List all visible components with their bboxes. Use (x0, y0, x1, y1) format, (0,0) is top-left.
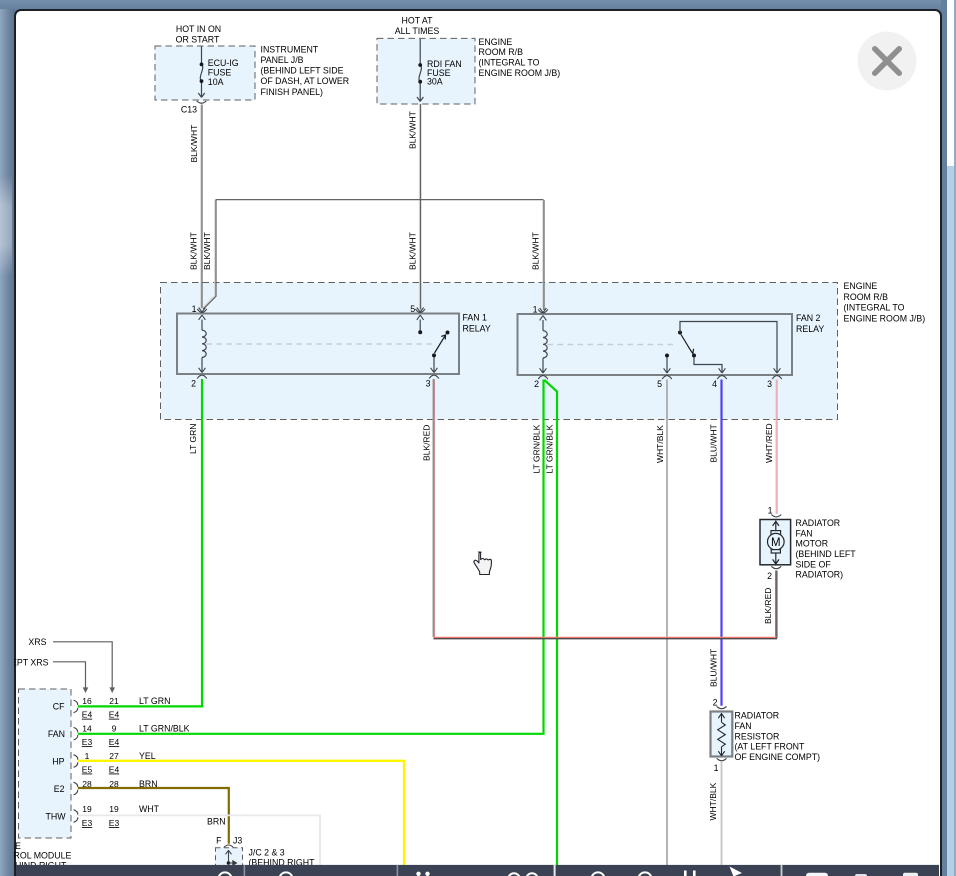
svg-text:3: 3 (767, 379, 772, 389)
toolbar separator 3 (554, 865, 556, 876)
svg-text:(INTEGRAL TO: (INTEGRAL TO (844, 303, 905, 313)
svg-text:HOT AT: HOT AT (402, 16, 434, 26)
svg-text:4: 4 (712, 379, 717, 389)
svg-text:FAN: FAN (796, 528, 813, 538)
relay FAN 1 RELAY box (177, 314, 459, 375)
svg-text:BLK/RED: BLK/RED (421, 425, 431, 461)
page background right strips and scrollbar (941, 0, 947, 876)
toolbar icon rect 1 (806, 873, 828, 876)
svg-text:1: 1 (533, 305, 538, 315)
relay1 switch (419, 320, 421, 331)
svg-text:EPT XRS: EPT XRS (14, 657, 49, 667)
svg-text:F: F (216, 836, 222, 846)
relay1 pin 5 (415, 308, 425, 320)
svg-text:16: 16 (82, 696, 92, 706)
svg-text:J3: J3 (233, 836, 242, 846)
svg-text:WHT: WHT (139, 804, 160, 814)
svg-text:19: 19 (82, 804, 92, 814)
toolbar icon rect 3 (903, 873, 918, 876)
svg-text:E4: E4 (109, 765, 120, 775)
svg-text:FAN: FAN (735, 721, 752, 731)
relay2 switch common from pin 3 (678, 331, 682, 335)
wire WHT/BLK resistor pin1 down (721, 762, 723, 866)
svg-text:2: 2 (534, 379, 539, 389)
svg-text:5: 5 (657, 379, 662, 389)
relay1 coil (202, 320, 206, 372)
svg-text:HOT IN ON: HOT IN ON (176, 24, 221, 34)
label RADIATOR FAN MOTOR (796, 518, 857, 580)
connector E5 E4 (82, 765, 120, 775)
mouse hand cursor (474, 552, 491, 575)
svg-text:BLK/WHT: BLK/WHT (189, 125, 199, 163)
relay1 pin 2 (197, 368, 207, 379)
svg-text:E4: E4 (109, 737, 120, 747)
svg-text:21: 21 (109, 696, 119, 706)
toolbar icon 12 (508, 873, 520, 876)
toolbar icon circle 3 (591, 872, 604, 876)
wire LT GRN/BLK relay2 pin2 to ECM FAN (78, 380, 544, 734)
wire YEL ECM HP down right (78, 761, 404, 865)
svg-text:SIDE OF: SIDE OF (796, 559, 832, 569)
wire LT GRN/BLK relay2 pin2 branch down (544, 380, 557, 865)
wire BLK/WHT fuse2 to relay1 pin5 (419, 104, 421, 310)
svg-text:E: E (15, 841, 21, 851)
svg-text:(INTEGRAL TO: (INTEGRAL TO (479, 58, 540, 68)
label RADIATOR FAN RESISTOR (735, 711, 821, 763)
svg-text:FINISH PANEL): FINISH PANEL) (261, 87, 323, 97)
svg-text:ENGINE ROOM J/B): ENGINE ROOM J/B) (479, 68, 561, 78)
junction J/C 2 & 3 box (216, 848, 243, 874)
relay2 pin 5 contact (665, 354, 669, 358)
svg-text:ENGINE ROOM J/B): ENGINE ROOM J/B) (844, 314, 926, 324)
svg-text:E2: E2 (54, 784, 65, 794)
svg-text:INSTRUMENT: INSTRUMENT (261, 45, 319, 55)
label J/C 2 & 3 (249, 848, 316, 868)
wire BLK/RED horizontal run motor to relay1 pin3 (434, 636, 777, 638)
relay2 switch arm (681, 335, 694, 354)
label ENGINE ROOM R/B (top) (479, 37, 561, 78)
svg-text:WHT/BLK: WHT/BLK (708, 782, 718, 820)
svg-text:2: 2 (191, 379, 196, 389)
svg-text:BLU/WHT: BLU/WHT (709, 649, 719, 687)
svg-text:14: 14 (82, 724, 92, 734)
svg-text:1: 1 (85, 751, 90, 761)
wire WHT/BLK relay2 pin5 down (666, 380, 668, 866)
svg-text:PANEL J/B: PANEL J/B (261, 55, 304, 65)
connector 2 radiator fan motor (771, 566, 781, 568)
svg-text:FAN 2: FAN 2 (796, 313, 821, 323)
svg-text:10A: 10A (208, 77, 224, 87)
svg-text:(BEHIND LEFT: (BEHIND LEFT (796, 549, 857, 559)
svg-text:E5: E5 (82, 765, 93, 775)
svg-text:E4: E4 (82, 710, 93, 720)
close button (858, 32, 917, 91)
node HOT AT ALL TIMES (395, 16, 440, 37)
ECM engine control module box (19, 689, 72, 838)
svg-text:LT GRN: LT GRN (188, 424, 198, 454)
wire BLK/RED motor pin2 down (775, 571, 777, 638)
svg-text:2: 2 (713, 698, 718, 708)
svg-text:OF DASH, AT LOWER: OF DASH, AT LOWER (261, 76, 350, 86)
toolbar separator 4 (781, 865, 783, 876)
svg-text:RADIATOR: RADIATOR (796, 518, 841, 528)
svg-text:9: 9 (112, 724, 117, 734)
bottom toolbar bar (16, 865, 939, 876)
svg-text:BLK/WHT: BLK/WHT (408, 111, 418, 149)
wire BRN ECM E2 to J/C (78, 788, 229, 844)
svg-text:LT GRN/BLK: LT GRN/BLK (139, 724, 190, 734)
relay2 actuation dashed line (548, 344, 677, 346)
fuse RDI FAN 30A (417, 39, 423, 101)
svg-text:LT GRN: LT GRN (139, 696, 170, 706)
svg-text:E3: E3 (109, 818, 120, 828)
svg-text:1: 1 (714, 763, 719, 773)
svg-text:FAN 1: FAN 1 (463, 313, 488, 323)
svg-text:(AT LEFT FRONT: (AT LEFT FRONT (735, 742, 806, 752)
wire BLU/WHT relay2 pin4 to resistor (720, 380, 722, 706)
relay FAN 2 RELAY box (518, 314, 793, 375)
svg-text:BLK/RED: BLK/RED (763, 588, 773, 624)
relay1 actuation dashed line (207, 343, 433, 345)
engine room R/B relay box (dashed) (161, 283, 838, 420)
engine room R/B box (top) (377, 38, 475, 104)
svg-text:HP: HP (52, 757, 64, 767)
node HOT IN ON OR START (176, 24, 221, 45)
toolbar icon circle 2 (279, 872, 292, 876)
svg-text:RESISTOR: RESISTOR (735, 731, 780, 741)
svg-text:1: 1 (192, 304, 197, 314)
toolbar separator 2 (397, 865, 399, 876)
toolbar icon rect 2 (855, 874, 867, 876)
junction internal arrow (226, 850, 232, 863)
svg-text:M: M (771, 537, 781, 549)
svg-text:WHT/BLK: WHT/BLK (655, 425, 665, 463)
svg-text:BLK/WHT: BLK/WHT (530, 232, 540, 270)
relay1 pin 1 (197, 308, 207, 320)
svg-text:THW: THW (45, 812, 66, 822)
pin numbers 14 9 (FAN) (82, 724, 116, 734)
svg-text:ROOM R/B: ROOM R/B (479, 47, 524, 57)
pin numbers 28 28 (E2) (82, 779, 119, 789)
svg-text:ROL MODULE: ROL MODULE (14, 851, 71, 861)
svg-text:CF: CF (53, 702, 65, 712)
pin numbers 19 19 (THW) (82, 804, 119, 814)
svg-text:3: 3 (426, 379, 431, 389)
svg-text:RADIATOR): RADIATOR) (796, 570, 844, 580)
motor RADIATOR FAN MOTOR box (760, 520, 791, 565)
relay2 pin 3 (772, 368, 782, 379)
relay2 coil (543, 320, 547, 372)
svg-text:ROOM R/B: ROOM R/B (844, 292, 889, 302)
svg-text:BLU/WHT: BLU/WHT (708, 424, 718, 462)
svg-text:YEL: YEL (139, 751, 156, 761)
page background left border strip (0, 0, 15, 876)
svg-text:WHT/RED: WHT/RED (764, 423, 774, 463)
relay2 pin 2 (538, 368, 548, 379)
fuse ECU-IG 10A (198, 47, 204, 98)
instrument panel J/B box (155, 46, 255, 100)
wire BLK/WHT rail right drop to relay2 pin1 (542, 200, 544, 310)
svg-text:RADIATOR: RADIATOR (735, 711, 780, 721)
connector E3 E4 (82, 737, 120, 747)
svg-text:30A: 30A (427, 77, 443, 87)
svg-text:5: 5 (410, 304, 415, 314)
svg-text:J/C 2 & 3: J/C 2 & 3 (249, 848, 285, 858)
svg-text:E4: E4 (109, 710, 120, 720)
svg-text:RELAY: RELAY (463, 323, 491, 333)
toolbar icon circle 1 (218, 872, 231, 876)
svg-text:27: 27 (109, 751, 119, 761)
svg-text:E3: E3 (82, 818, 93, 828)
toolbar icon bars (684, 871, 687, 876)
wire BLK/RED relay1 pin3 down (432, 379, 434, 637)
ECM box caption (clipped) (14, 841, 72, 871)
connector C13 under fuse box (197, 101, 207, 103)
svg-text:FAN: FAN (48, 729, 65, 739)
svg-text:XRS: XRS (28, 637, 46, 647)
toolbar separator 1 (244, 865, 246, 876)
relay2 pin 1 (538, 308, 548, 320)
connector E4 E4 (82, 710, 120, 720)
svg-text:E3: E3 (82, 737, 93, 747)
toolbar icon circle 4 (638, 872, 651, 876)
wire BLK/WHT fuse1 to relay1 pin1 (200, 105, 202, 309)
relay2 pin 4 (717, 368, 727, 379)
wire BLK/WHT rail left drop to relay1 pin1 (202, 200, 215, 309)
svg-text:OF ENGINE COMPT): OF ENGINE COMPT) (735, 752, 821, 762)
svg-text:BLK/WHT: BLK/WHT (202, 232, 212, 270)
label INSTRUMENT PANEL J/B (261, 45, 350, 97)
svg-text:19: 19 (109, 804, 119, 814)
toolbar icon pointer (730, 867, 743, 876)
wire LT GRN relay1 pin2 to ECM CF (78, 379, 202, 706)
label ENGINE ROOM R/B (relay box) (844, 281, 926, 324)
svg-text:ALL TIMES: ALL TIMES (395, 26, 440, 36)
svg-text:RELAY: RELAY (796, 324, 824, 334)
svg-text:C13: C13 (181, 105, 197, 115)
page background top strip (0, 0, 956, 9)
svg-text:2: 2 (767, 571, 772, 581)
connector 1 radiator fan resistor (717, 758, 727, 760)
svg-text:BLK/WHT: BLK/WHT (407, 232, 417, 270)
connector E3 E3 (82, 818, 120, 828)
wire BLK/WHT rail (216, 199, 544, 201)
svg-text:BRN: BRN (207, 817, 226, 827)
svg-text:(BEHIND LEFT SIDE: (BEHIND LEFT SIDE (261, 66, 344, 76)
svg-text:ENGINE: ENGINE (844, 281, 878, 291)
wire WHT/RED relay2 pin3 to motor (775, 380, 777, 514)
relay2 pin 5 (662, 368, 672, 379)
svg-text:BLK/WHT: BLK/WHT (188, 232, 198, 270)
resistor RADIATOR FAN RESISTOR box (711, 712, 733, 757)
relay1 pin 3 (429, 368, 439, 379)
toolbar icon dots (416, 872, 420, 876)
svg-text:LT GRN/BLK: LT GRN/BLK (531, 424, 541, 473)
svg-text:ENGINE: ENGINE (479, 37, 513, 47)
wire WHT ECM THW down right (78, 815, 320, 865)
svg-text:1: 1 (768, 506, 773, 516)
pin numbers 16 21 (CF) (82, 696, 119, 706)
svg-text:LT GRN/BLK: LT GRN/BLK (545, 424, 555, 473)
pin numbers 1 27 (HP) (85, 751, 119, 761)
svg-text:OR START: OR START (176, 34, 220, 44)
svg-text:MOTOR: MOTOR (796, 539, 829, 549)
